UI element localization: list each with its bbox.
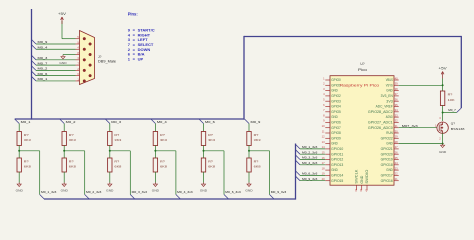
svg-text:R?: R? [114, 133, 119, 137]
svg-text:GPIO16: GPIO16 [381, 179, 393, 183]
svg-text:M0_2_3v3: M0_2_3v3 [86, 190, 102, 194]
svg-text:GPIO28_ADC2: GPIO28_ADC2 [368, 110, 393, 114]
svg-text:RUN: RUN [386, 131, 393, 135]
wire M0_4 to DB9 pin 4 [36, 48, 76, 50]
svg-text:GND: GND [16, 189, 23, 193]
wire tap M0_1_3v3 [19, 150, 40, 152]
wire tap M0_3_3v3 [110, 150, 131, 152]
bus entry for M0_4 [32, 45, 37, 50]
pico left pin 12 GPIO9 [325, 137, 330, 139]
svg-text:6K8: 6K8 [114, 165, 122, 169]
svg-text:3K3: 3K3 [69, 138, 77, 142]
note: pins legend [128, 12, 155, 62]
pico right pin 30 RUN [394, 132, 399, 134]
svg-text:GPIO11: GPIO11 [331, 152, 343, 156]
svg-text:34: 34 [395, 108, 398, 112]
svg-text:M0_9: M0_9 [251, 120, 261, 124]
svg-text:UP: UP [138, 56, 144, 61]
svg-text:GPIO15: GPIO15 [331, 179, 343, 183]
bus entry for M0_9 [32, 39, 37, 44]
svg-text:10K: 10K [448, 98, 455, 102]
pico left pin 11 GPIO8 [325, 132, 330, 134]
junction [109, 150, 111, 152]
svg-text:M0_3: M0_3 [111, 120, 121, 124]
bus entry M0_3_3v3 [130, 195, 135, 200]
resistor R? 3K3 [201, 132, 205, 146]
svg-text:12: 12 [322, 135, 325, 139]
junction VSYS/+5V [442, 84, 444, 86]
svg-text:R?: R? [254, 159, 259, 163]
bus entry M0_7 [457, 108, 462, 113]
connector J? DB9_Male body [80, 31, 95, 85]
wire between resistors [63, 146, 65, 159]
svg-text:ADC_VREF: ADC_VREF [376, 105, 393, 109]
DB9 pin 1 stub [76, 80, 80, 82]
pico right pin 26 GPIO20 [394, 153, 399, 155]
wire between resistors [109, 146, 111, 159]
svg-text:32: 32 [395, 119, 398, 123]
pico right pin 28 GND [394, 143, 399, 145]
svg-text:GPIO27_ADC1: GPIO27_ADC1 [368, 121, 393, 125]
svg-text:GPIO2: GPIO2 [331, 94, 341, 98]
svg-text:GPIO4: GPIO4 [331, 105, 341, 109]
bus entry M0_9_3v3 [296, 176, 301, 181]
svg-text:26: 26 [395, 151, 398, 155]
pico left pin 17 GPIO13 [325, 164, 330, 166]
DB9 pin 3 stub [76, 59, 80, 61]
svg-text:M0_4: M0_4 [38, 45, 48, 49]
bus vertical x295 (pico side) [294, 144, 297, 200]
svg-text:GND: GND [439, 150, 446, 154]
svg-text:M0_7: M0_7 [448, 108, 456, 112]
svg-text:START/C: START/C [138, 28, 155, 33]
svg-text:LEFT: LEFT [138, 37, 149, 42]
svg-text:M0_6: M0_6 [38, 72, 48, 76]
svg-text:J?: J? [98, 55, 102, 59]
bus horizontal bottom [44, 198, 296, 201]
svg-text:AGND: AGND [386, 115, 394, 119]
resistor R? 3K3 [247, 132, 251, 146]
wire R to drain [442, 106, 444, 122]
svg-text:3K3: 3K3 [160, 138, 168, 142]
resistor R? 3K3 [153, 132, 157, 146]
svg-text:GPIO19: GPIO19 [381, 158, 393, 162]
pico left pin 4 GPIO2 [325, 95, 330, 97]
svg-text:10: 10 [322, 124, 325, 128]
svg-text:VBUS: VBUS [386, 78, 393, 82]
pico right pin 38 GND [394, 90, 399, 92]
svg-text:R?: R? [254, 133, 259, 137]
svg-text:42: 42 [359, 188, 363, 191]
junction M0_7 [442, 112, 444, 114]
svg-text:3V3: 3V3 [386, 99, 393, 103]
svg-text:SELECT: SELECT [138, 42, 154, 47]
pico left pin 20 GPIO15 [325, 180, 330, 182]
wire to ground [203, 172, 205, 183]
wire M0_3 down to R 3K3 [109, 124, 111, 132]
resistor R? 6K8 [108, 158, 112, 172]
pico right pin 36 3V3 [394, 100, 399, 102]
ground (M0_9 divider) [245, 183, 252, 193]
bus entry M0_4 [151, 119, 156, 124]
divider column M0_6 [199, 119, 241, 199]
svg-text:43: 43 [364, 188, 368, 191]
svg-text:M0_4_3v3: M0_4_3v3 [302, 161, 318, 165]
pico bottom pin 42 GND [361, 185, 363, 190]
resistor R? 3K3 [17, 132, 21, 146]
pico right pin 32 GPIO27_ADC1 [394, 121, 399, 123]
pico left pin 6 GPIO4 [325, 106, 330, 108]
svg-text:6K8: 6K8 [208, 165, 216, 169]
svg-text:R?: R? [208, 133, 213, 137]
svg-text:22: 22 [395, 172, 398, 176]
ground (M0_6 divider) [200, 183, 207, 193]
svg-text:GPIO10: GPIO10 [331, 147, 343, 151]
bus entry M0_4_3v3 [176, 195, 181, 200]
wire M0_7 [443, 112, 457, 114]
svg-text:M0_1_3v3: M0_1_3v3 [302, 145, 318, 149]
svg-text:27: 27 [395, 145, 398, 149]
pico right pin 27 GPIO21 [394, 148, 399, 150]
svg-text:GPIO8: GPIO8 [331, 131, 341, 135]
bus entry M0_1 [15, 119, 20, 124]
ground (mosfet source) [439, 144, 446, 154]
svg-text:GND: GND [331, 142, 338, 146]
svg-text:R?: R? [448, 92, 453, 96]
wire M0_2 to DB9 pin 2 [36, 69, 76, 71]
svg-text:M0_3_3v3: M0_3_3v3 [132, 190, 148, 194]
pico left pin 2 GPIO1 [325, 84, 330, 86]
svg-text:6K8: 6K8 [69, 165, 77, 169]
wire M0_7 to DB9 pin 7 [36, 64, 76, 66]
svg-text:13: 13 [322, 140, 325, 144]
pico right pin 22 GPIO17 [394, 174, 399, 176]
svg-text:M0_4_3v3: M0_4_3v3 [177, 190, 193, 194]
svg-text:41: 41 [354, 188, 358, 191]
wire to ground [63, 172, 65, 183]
svg-text:GPIO6: GPIO6 [331, 121, 341, 125]
svg-text:36: 36 [395, 98, 398, 102]
bus entry for M0_6 [32, 71, 37, 76]
svg-text:GND: GND [386, 168, 393, 172]
DB9 pin 6 stub [76, 75, 80, 77]
wire M0_9 down to R 3K3 [248, 124, 250, 132]
bus vertical riser x244 [243, 36, 246, 120]
svg-text:30: 30 [395, 129, 398, 133]
wire M0_1 down to R 3K3 [18, 124, 20, 132]
junction [63, 150, 65, 152]
wire tap M0_4_3v3 [155, 150, 176, 152]
wire pico GND pin to junction [399, 143, 443, 145]
bus entry for M0_7 [32, 61, 37, 66]
svg-text:RIGHT: RIGHT [138, 32, 151, 37]
pico bottom pin 43 SWDIO [366, 185, 368, 190]
wire to ground [18, 172, 20, 183]
wire M0_1 to DB9 pin 1 [36, 80, 76, 82]
svg-text:33: 33 [395, 113, 398, 117]
svg-text:35: 35 [395, 103, 398, 107]
bus entry M0_4_3v3 [296, 160, 301, 165]
svg-text:38: 38 [395, 87, 398, 91]
svg-text:U?: U? [360, 62, 364, 66]
svg-text:GPIO20: GPIO20 [381, 152, 393, 156]
svg-text:GND: GND [61, 189, 68, 193]
resistor R? 6K8 [17, 158, 21, 172]
svg-text:GND: GND [245, 189, 252, 193]
svg-text:39: 39 [395, 82, 398, 86]
pico left pin 9 GPIO6 [325, 121, 330, 123]
pico right pin 24 GPIO18 [394, 164, 399, 166]
DB9 pin 2 stub [76, 69, 80, 71]
svg-text:M0_6: M0_6 [205, 120, 215, 124]
svg-text:GND: GND [152, 189, 159, 193]
svg-text:6K8: 6K8 [160, 165, 168, 169]
divider column M0_2 [60, 119, 102, 199]
svg-text:3V3_EN: 3V3_EN [381, 94, 394, 98]
svg-text:R?: R? [208, 159, 213, 163]
svg-text:R?: R? [69, 159, 74, 163]
wire between resistors [248, 146, 250, 159]
svg-text:M0_2_3v3: M0_2_3v3 [302, 150, 318, 154]
svg-text:GPIO22: GPIO22 [381, 136, 393, 140]
svg-text:GND: GND [331, 168, 338, 172]
pico right pin 35 ADC_VREF [394, 106, 399, 108]
wire between resistors [203, 146, 205, 159]
svg-text:DOWN: DOWN [138, 47, 151, 52]
resistor R? 6K8 [62, 158, 66, 172]
bus horizontal middle [15, 118, 244, 121]
svg-text:6K8: 6K8 [24, 165, 32, 169]
wire +5V node to R 10K [442, 85, 444, 91]
wire DB9 pin5 to +5V [62, 38, 76, 40]
svg-text:GPIO1: GPIO1 [331, 83, 341, 87]
divider column M0_9 [245, 119, 287, 199]
svg-text:Pins:: Pins: [128, 12, 138, 17]
svg-text:M0_9_3v3: M0_9_3v3 [271, 190, 287, 194]
svg-text:GPIO0: GPIO0 [331, 78, 341, 82]
divider column M0_4 [151, 119, 193, 199]
+5V power symbol (DB9) [58, 12, 67, 24]
wire tap M0_2_3v3 [64, 150, 85, 152]
resistor R? 3K3 [108, 132, 112, 146]
svg-text:R?: R? [114, 159, 119, 163]
svg-text:GND: GND [360, 175, 364, 184]
svg-text:Q?: Q? [451, 122, 455, 126]
pico right pin 31 GPIO26_ADC0 [394, 127, 399, 129]
svg-text:GND: GND [331, 115, 338, 119]
ground (M0_3 divider) [106, 183, 113, 193]
junction [18, 150, 20, 152]
ground (M0_4 divider) [152, 183, 159, 193]
svg-text:40: 40 [395, 76, 398, 80]
svg-text:M07_3v3: M07_3v3 [402, 124, 418, 128]
ground (M0_1 divider) [16, 183, 23, 193]
svg-text:M0_9_3v3: M0_9_3v3 [302, 177, 318, 181]
svg-text:21: 21 [395, 177, 398, 181]
svg-text:GPIO12: GPIO12 [331, 158, 343, 162]
junction [154, 150, 156, 152]
bus entry M0_9 [245, 119, 250, 124]
wire M0_3 to DB9 pin 3 [36, 59, 76, 61]
svg-text:GND: GND [106, 189, 113, 193]
wire DB9 pin8 to GND [63, 54, 76, 56]
svg-text:M0_3: M0_3 [38, 56, 48, 60]
svg-text:6K8: 6K8 [254, 165, 262, 169]
svg-text:M0_2: M0_2 [38, 67, 48, 71]
resistor R? 6K8 [247, 158, 251, 172]
wire gate M07_3v3 from pico [399, 127, 437, 129]
bus entry M0_6 [199, 119, 204, 124]
svg-text:GPIO7: GPIO7 [331, 126, 341, 130]
svg-text:GND: GND [386, 89, 393, 93]
svg-text:GPIO9: GPIO9 [331, 136, 341, 140]
svg-text:31: 31 [395, 124, 398, 128]
svg-text:24: 24 [395, 161, 398, 165]
wire between resistors [154, 146, 156, 159]
IC U? Raspberry Pi Pico body [330, 76, 394, 186]
svg-text:M0_1: M0_1 [21, 120, 31, 124]
transistor Q? BSS138 [437, 122, 448, 133]
svg-text:29: 29 [395, 135, 398, 139]
wire tap M0_9_3v3 [249, 150, 270, 152]
pico left pin 18 GND [325, 169, 330, 171]
wire M0_9_3v3 to pico [300, 180, 325, 182]
bus entry M0_3 [105, 119, 110, 124]
wire M0_1_3v3 to pico [300, 148, 325, 150]
wire M0_4_3v3 to pico [300, 164, 325, 166]
wire M0_2 down to R 3K3 [63, 124, 65, 132]
DB9 pin 7 stub [76, 64, 80, 66]
svg-text:Pico: Pico [358, 68, 367, 72]
ground (M0_2 divider) [61, 183, 68, 193]
wire M0_6_3v3 to pico [300, 174, 325, 176]
svg-text:M0_7: M0_7 [38, 61, 48, 65]
svg-text:37: 37 [395, 92, 398, 96]
pico right pin 33 AGND [394, 116, 399, 118]
wire M0_4 down to R 3K3 [154, 124, 156, 132]
bus entry M0_3_3v3 [296, 155, 301, 160]
junction [203, 150, 205, 152]
bus entry M0_6_3v3 [224, 195, 229, 200]
DB9 pin 5 stub [76, 38, 80, 40]
svg-text:M0_3_3v3: M0_3_3v3 [302, 156, 318, 160]
pico left pin 14 GPIO10 [325, 148, 330, 150]
resistor R? 6K8 [201, 158, 205, 172]
pico left pin 16 GPIO12 [325, 159, 330, 161]
bus entry for M0_2 [32, 66, 37, 71]
svg-text:GPIO3: GPIO3 [331, 99, 341, 103]
bus vertical right x461 [460, 36, 463, 108]
divider column M0_1 [15, 119, 57, 199]
svg-text:3K3: 3K3 [208, 138, 216, 142]
wire to ground [248, 172, 250, 183]
bus entry for M0_3 [32, 55, 37, 60]
resistor R? 6K8 [153, 158, 157, 172]
bus entry M0_2_3v3 [296, 150, 301, 155]
svg-text:M0_4: M0_4 [157, 120, 167, 124]
svg-text:GPIO21: GPIO21 [381, 147, 393, 151]
svg-text:GND: GND [59, 61, 66, 65]
DB9 pin 4 stub [76, 48, 80, 50]
ground (DB9 pin8) [59, 55, 66, 65]
svg-text:GND: GND [200, 189, 207, 193]
bus horizontal top [244, 35, 461, 38]
svg-text:GPIO17: GPIO17 [381, 174, 393, 178]
bus entry M0_2_3v3 [85, 195, 90, 200]
junction source/gnd [442, 143, 444, 145]
bus entry for M0_1 [32, 76, 37, 81]
wire M0_3_3v3 to pico [300, 159, 325, 161]
bus entry M0_6_3v3 [296, 171, 301, 176]
wire M0_2_3v3 to pico [300, 153, 325, 155]
svg-text:M0_2: M0_2 [66, 120, 76, 124]
svg-text:M0_6_3v3: M0_6_3v3 [302, 172, 318, 176]
pico right pin 29 GPIO22 [394, 137, 399, 139]
svg-text:SWCLK: SWCLK [355, 169, 359, 184]
pico right pin 23 GND [394, 169, 399, 171]
bus entry M0_2 [60, 119, 64, 124]
svg-text:R?: R? [160, 133, 165, 137]
pico right pin 21 GPIO16 [394, 180, 399, 182]
bus entry M0_9_3v3 [270, 195, 275, 200]
svg-text:3K3: 3K3 [114, 138, 122, 142]
svg-text:B/A: B/A [138, 52, 145, 57]
pico right pin 40 VBUS [394, 79, 399, 81]
wire between resistors [18, 146, 20, 159]
svg-text:M0_1_3v3: M0_1_3v3 [41, 190, 57, 194]
svg-text:VSYS: VSYS [386, 83, 393, 87]
svg-text:+5V: +5V [58, 12, 67, 16]
svg-text:GPIO13: GPIO13 [331, 163, 343, 167]
svg-text:3K3: 3K3 [254, 138, 262, 142]
svg-text:R?: R? [160, 159, 165, 163]
pico left pin 3 GND [325, 90, 330, 92]
svg-text:DB9_Male: DB9_Male [98, 60, 116, 64]
pico right pin 25 GPIO19 [394, 159, 399, 161]
pico left pin 8 GND [325, 116, 330, 118]
svg-text:GPIO14: GPIO14 [331, 174, 343, 178]
wire to ground [109, 172, 111, 183]
pico bottom pin 41 SWCLK [355, 185, 357, 190]
pico left pin 7 GPIO5 [325, 111, 330, 113]
svg-text:SWDIO: SWDIO [365, 169, 369, 184]
wire source to gnd junction [442, 133, 444, 143]
bus entry M0_1_3v3 [40, 195, 45, 200]
pico right pin 39 VSYS [394, 84, 399, 86]
svg-text:M0_1: M0_1 [38, 77, 48, 81]
+5V power symbol (pico) [439, 66, 448, 78]
pico left pin 19 GPIO14 [325, 174, 330, 176]
svg-text:R?: R? [24, 133, 29, 137]
svg-text:23: 23 [395, 166, 398, 170]
bus entry M0_1_3v3 [296, 144, 301, 149]
svg-text:M0_6_3v3: M0_6_3v3 [225, 190, 241, 194]
svg-text:28: 28 [395, 140, 398, 144]
pico right pin 34 GPIO28_ADC2 [394, 111, 399, 113]
DB9 pin 8 stub [76, 54, 80, 56]
wire to ground [154, 172, 156, 183]
svg-text:18: 18 [322, 166, 325, 170]
svg-text:3K3: 3K3 [24, 138, 32, 142]
pico left pin 15 GPIO11 [325, 153, 330, 155]
wire VSYS to +5V node [399, 84, 443, 86]
svg-text:GND: GND [331, 89, 338, 93]
wire M0_9 to DB9 pin 9 [36, 43, 76, 45]
resistor R? 10K [440, 91, 444, 106]
wire M0_6 down to R 3K3 [203, 124, 205, 132]
svg-text:GPIO5: GPIO5 [331, 110, 341, 114]
pico right pin 37 3V3_EN [394, 95, 399, 97]
